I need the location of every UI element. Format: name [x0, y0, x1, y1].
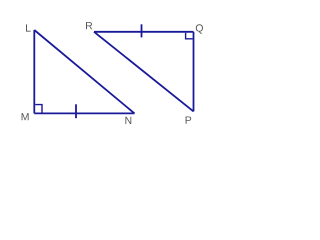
vertex label R [86, 22, 92, 29]
tick mark on RQ [141, 24, 143, 37]
triangle LMN side LM (vertical left leg) [33, 30, 35, 113]
vertex label P [186, 116, 192, 123]
vertex label L [26, 24, 31, 31]
right-angle mark at Q [186, 33, 193, 39]
tick mark on MN [75, 104, 77, 118]
vertex label M [22, 113, 29, 120]
triangle LMN hypotenuse NL [34, 30, 134, 113]
vertex label Q [196, 24, 203, 33]
triangle LMN side MN (horizontal bottom leg) [34, 112, 134, 114]
triangle RQP side RQ (horizontal top leg) [94, 31, 194, 33]
vertex label N [125, 117, 131, 124]
triangle RQP side QP (vertical right leg) [193, 32, 195, 112]
right-angle mark at M [35, 105, 42, 113]
triangle RQP hypotenuse PR [94, 32, 194, 112]
